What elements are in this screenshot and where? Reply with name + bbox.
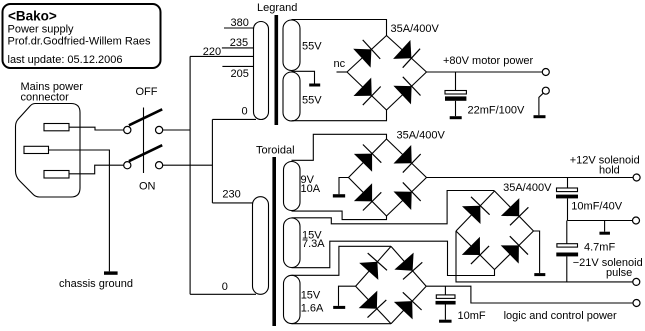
bridge rectifier BR2 diode D3 (left-bottom) [354,183,381,210]
svg-text:4.7mF: 4.7mF [584,242,615,254]
tap 380 line [224,27,254,29]
svg-text:hold: hold [599,165,620,177]
bridge rectifier BR2 diamond outline [349,139,427,216]
title text author [8,36,152,48]
wire pin2 to chassis ground [49,150,110,271]
switch pole2 left contact [124,162,131,169]
bus L vertical (220 / toroidal 0) [189,56,191,294]
svg-text:235: 235 [230,37,248,49]
nc stub [337,71,348,73]
label hold [599,165,620,177]
connector pin 3 (neutral) [44,171,69,179]
mains connector outline [16,104,81,198]
svg-text:205: 205 [231,68,249,80]
wire 9V bottom to BR2 bottom [292,211,387,220]
capacitor C4 lead bottom [444,305,446,320]
switch link line [143,108,145,174]
bridge rectifier BR3 diode D3 (left-bottom) [462,237,489,264]
svg-text:Prof.dr.Godfried-Willem Raes: Prof.dr.Godfried-Willem Raes [8,36,152,48]
svg-text:Legrand: Legrand [257,2,297,14]
bridge rectifier BR2 diode D4 (bottom-right) [394,182,421,210]
label 35A/400V (BR1) [391,23,440,35]
svg-text:1.6A: 1.6A [301,303,324,315]
bridge rectifier BR3 diode D4 (bottom-right) [501,236,528,263]
wire 55V bottom to BR1 bottom [292,110,387,121]
svg-text:nc: nc [334,58,346,70]
label 35A/400V (BR3) [503,182,552,194]
label 15V (7.3A winding) [302,230,322,242]
BR4 ground bar [333,306,345,309]
label 220 [203,46,221,58]
label +12V solenoid [570,154,640,166]
svg-text:55V: 55V [302,41,322,53]
svg-text:15V: 15V [301,290,321,302]
wire pin3 to switch pole2 [69,165,124,174]
svg-text:0: 0 [222,281,228,293]
label logic and control power [504,310,617,322]
svg-text:ON: ON [139,181,156,193]
label pulse [606,267,632,279]
bridge rectifier BR4 diamond outline [356,246,427,323]
label 230 [222,189,240,201]
transformer T1 core [275,15,279,125]
label Toroidal [256,145,295,157]
label 10mF [458,310,486,322]
svg-text:0: 0 [242,106,248,118]
svg-text:35A/400V: 35A/400V [503,182,552,194]
wire pin1 to switch pole1 [69,127,124,130]
wire BR2 - to ground [339,178,349,195]
wire 15V/7.3A top to BR3 top [292,191,495,224]
T2 secondary winding 15V 7.3A [284,218,301,268]
wire BR2 + output (+12V) [427,177,634,179]
label ON [139,181,156,193]
connector pin 2 (earth) [24,146,49,153]
bridge rectifier BR3 diode D1 (left-top) [462,197,490,224]
capacitor C4 top plate [436,295,455,299]
wire 55V top to BR1 top [292,20,387,36]
bridge rectifier BR4 diode D3 (left-bottom) [359,291,387,318]
svg-text:<Bako>: <Bako> [8,9,57,24]
wire switch pole2 to bus N [163,164,213,166]
bridge rectifier BR1 diode D3 (left-bottom) [354,78,381,106]
tap 220 line [190,55,253,57]
bridge rectifier BR3 diamond outline [456,191,534,270]
label 22mF/100V [468,105,526,117]
label 55V lower [302,95,322,107]
label 9V [301,174,315,186]
svg-text:OFF: OFF [136,86,158,98]
svg-text:connector: connector [21,92,70,104]
capacitor C2 lead top [567,178,569,189]
terminal +80V return [542,87,549,94]
T1 secondary winding 55V upper [283,20,300,71]
label nc [334,58,346,70]
label chassis ground [59,278,133,290]
connector pin 1 (live) [44,124,69,131]
bridge rectifier BR2 diode D1 (left-top) [354,145,381,172]
label Mains power connector [21,81,84,104]
C1 ground bar [450,116,462,119]
tap 205 line [222,65,253,67]
svg-text:10A: 10A [301,183,321,195]
tap 235 line [222,47,254,49]
bridge rectifier BR1 diode D4 (bottom-right) [393,77,420,105]
transformer T2 core [272,157,276,326]
svg-text:Toroidal: Toroidal [256,145,295,157]
wire BR1 + output (+80V) [427,71,543,73]
capacitor C1 lead top [455,72,457,91]
tap 230 line [212,202,252,204]
label 55V upper [302,41,322,53]
capacitor C1 bottom plate [445,96,466,100]
center tap ground bar [309,84,320,87]
capacitor C3 top plate [557,244,578,247]
svg-text:10mF: 10mF [458,310,486,322]
return ground bar [534,115,546,118]
wire BR3 - output (-21V) [456,231,633,282]
bridge rectifier BR3 diode D2 (top-right) [501,198,529,225]
svg-text:35A/400V: 35A/400V [397,130,446,142]
tap 0 line (toroidal) [190,293,256,295]
svg-text:220: 220 [203,46,221,58]
switch pole2 blade [129,145,162,161]
label 1.6A [301,303,324,315]
label Legrand [257,2,297,14]
label 0 (legrand) [242,106,248,118]
wire 15V/1.6A bottom to BR4 bottom [292,323,392,325]
label OFF [136,86,158,98]
svg-text:35A/400V: 35A/400V [391,23,440,35]
wire BR4 - to ground [339,286,356,306]
label 4.7mF [584,242,615,254]
wire 0V rail [568,220,633,222]
capacitor C3 bottom plate [556,253,578,257]
svg-text:230: 230 [222,189,240,201]
terminal logic power [633,300,640,307]
bridge rectifier BR1 diamond outline [347,36,427,111]
tap 0 line (legrand) [212,118,256,120]
switch pole1 blade [129,109,162,125]
svg-text:22mF/100V: 22mF/100V [468,105,526,117]
wire 9V top to BR2 top [292,134,387,160]
title box frame [3,4,161,68]
label 205 [231,68,249,80]
switch pole2 right contact [156,162,163,169]
svg-text:Power supply: Power supply [8,24,75,36]
BR2 ground bar [333,194,345,197]
label +80V motor power [443,55,534,67]
label 380 [231,17,249,29]
switch pole1 left contact [124,126,131,133]
capacitor C1 top plate [445,91,466,95]
bus N vertical (legrand 0 / toroidal 230) [211,119,213,202]
0V ground stem [604,221,606,232]
label 35A/400V (BR2) [397,130,446,142]
chassis ground bar [104,271,118,274]
svg-text:10mF/40V: 10mF/40V [571,201,622,213]
title text last update [8,54,123,66]
svg-text:chassis ground: chassis ground [59,278,133,290]
wire switch pole1 to bus L [163,129,190,131]
bridge rectifier BR2 diode D2 (top-right) [394,145,421,173]
T2 secondary winding 15V 1.6A [284,275,301,323]
svg-text:+80V motor power: +80V motor power [443,55,534,67]
capacitor C2 bottom plate [556,195,578,199]
bridge rectifier BR4 diode D4 (bottom-right) [394,292,422,319]
capacitor C4 lead top [444,286,446,295]
capacitor C3 lead top [566,221,568,244]
switch pole1 right contact [156,126,163,133]
svg-text:55V: 55V [302,95,322,107]
capacitor C2 lead bottom [567,198,569,220]
capacitor C1 lead bottom [455,101,457,116]
T2 secondary winding 9V [284,162,301,211]
svg-text:last update: 05.12.2006: last update: 05.12.2006 [8,54,123,66]
0V ground bar [599,232,610,235]
wire BR3 + to ground [534,231,540,273]
transformer T1 primary winding [254,22,269,120]
T1 secondary winding 55V lower [283,72,300,121]
label 10mF/40V [571,201,622,213]
transformer T2 primary winding [253,197,269,295]
C4 ground bar [439,320,452,323]
label 7.3A [302,238,325,250]
svg-text:pulse: pulse [606,267,632,279]
label 10A [301,183,321,195]
label 15V (1.6A winding) [301,290,321,302]
wire 15V/7.3A bottom to BR3 bottom [292,241,495,275]
wire BR4 + output (logic) [426,286,633,303]
label 235 [230,37,248,49]
BR3 ground bar [534,273,545,276]
terminal 0V [633,217,640,224]
title text Power supply [8,24,75,36]
bridge rectifier BR1 diode D2 (top-right) [393,40,420,68]
label 0 (toroidal) [222,281,228,293]
terminal -21V [633,278,640,285]
bridge rectifier BR1 diode D1 (left-top) [353,40,380,68]
terminal +80V [542,69,549,76]
capacitor C3 lead bottom [566,256,568,282]
title text <Bako> [8,9,57,24]
label -21V solenoid [573,257,643,269]
capacitor C4 bottom plate [436,301,456,305]
capacitor C2 top plate [557,188,578,192]
terminal +12V [633,174,640,181]
wire center tap to bar [292,71,315,83]
bridge rectifier BR4 diode D1 (left-top) [359,253,387,280]
bridge rectifier BR4 diode D2 (top-right) [394,253,422,280]
svg-text:7.3A: 7.3A [302,238,325,250]
svg-text:logic and control power: logic and control power [504,310,617,322]
svg-text:380: 380 [231,17,249,29]
wire 15V/1.6A top to BR4 top [292,246,392,275]
wire terminal return to ground [539,93,543,115]
